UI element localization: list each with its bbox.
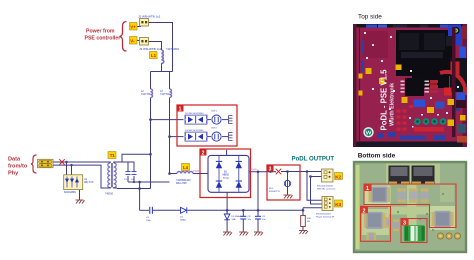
variant cross X on data line [59, 159, 64, 165]
choke component A (black) [389, 166, 410, 186]
wire cap C4 lower stub [133, 176, 135, 182]
capacitor mid 1 [398, 189, 407, 203]
wire ESD to ground [79, 190, 81, 200]
svg-text:T1: T1 [110, 153, 116, 158]
svg-text:J3 WR-WTB 1x2: J3 WR-WTB 1x2 [139, 47, 162, 51]
svg-text:K2: K2 [335, 174, 341, 179]
capacitor mid 2 [409, 189, 418, 203]
inductor L1 [162, 47, 180, 63]
wire surge row1 gdt out [222, 119, 228, 121]
series diode D4 on bottom rail [180, 207, 187, 221]
svg-text:Plugin Terminal 3P: Plugin Terminal 3P [316, 216, 335, 219]
wire ESD pin stub 2 [71, 165, 73, 175]
wire feed to surge box row2 [170, 136, 184, 138]
net label L4 tag [182, 164, 190, 171]
wire cap C3 branch [122, 162, 128, 171]
svg-text:D3 WE-VE 823540: D3 WE-VE 823540 [185, 130, 204, 132]
TVS row 1 (D2) [185, 113, 207, 124]
svg-text:3: 3 [269, 166, 272, 172]
svg-text:7447709: 7447709 [160, 93, 170, 96]
wire rail drop to bottom [139, 182, 141, 210]
wire feed to surge box row1 [151, 119, 184, 121]
bridge rectifier B1 [208, 150, 249, 192]
connector K2 [317, 169, 336, 191]
svg-text:J2 WR-WTB 1x2: J2 WR-WTB 1x2 [138, 15, 161, 19]
net label K3 tag [335, 200, 343, 207]
PCB photo bottom side (green board) [354, 162, 466, 252]
wire varistor to ground [287, 187, 289, 195]
svg-text:749910: 749910 [105, 193, 114, 196]
svg-text:D2 WE-VE 823540: D2 WE-VE 823540 [185, 113, 204, 115]
wire L4 feed line [170, 173, 178, 175]
PCB photo top side (red PSE board) [353, 24, 467, 147]
wire shunt C8 branch [242, 210, 244, 216]
wire bottom rail mid [153, 209, 181, 211]
highlight box 1 (L-shape) [364, 184, 456, 228]
wire K3 line 3 [303, 207, 322, 209]
svg-text:Power from: Power from [86, 29, 115, 35]
svg-text:PoDL - PSE V1.5: PoDL - PSE V1.5 [380, 69, 389, 131]
net label T1 tag [108, 152, 116, 159]
ground (D5) [223, 232, 232, 236]
svg-text:3: 3 [403, 221, 406, 227]
svg-text:L1: L1 [151, 53, 157, 58]
svg-text:WE-TVS: WE-TVS [84, 181, 94, 184]
svg-text:0R: 0R [307, 221, 310, 223]
wire K3 line 1 [307, 172, 322, 201]
wire L4 to bridge [193, 173, 208, 175]
capacitor box2 big [364, 212, 386, 229]
wire V- from J3 to L1 top [149, 42, 162, 51]
svg-text:L4: L4 [183, 165, 189, 170]
wire V- tag stub [137, 40, 141, 42]
svg-text:Phy: Phy [8, 171, 19, 177]
resistor R10 [301, 216, 312, 227]
svg-text:824014881: 824014881 [64, 191, 77, 194]
brace for data lines [31, 155, 37, 173]
net label V- [130, 37, 138, 45]
svg-text:GDT2: GDT2 [211, 128, 218, 130]
svg-text:Data: Data [8, 157, 21, 163]
capacitor right big [432, 211, 454, 228]
wire cap C4 branch [128, 162, 134, 171]
capacitor box2 small [367, 233, 377, 241]
ground (ESD array) [76, 200, 85, 204]
variant cross X on output line [276, 169, 282, 175]
svg-text:2: 2 [202, 150, 205, 156]
wire right rail upper [169, 72, 171, 90]
ground (C8) [239, 232, 248, 236]
wire shunt C9 branch [257, 210, 259, 216]
svg-text:from/to: from/to [8, 164, 28, 170]
wire surge row2 gdt out [222, 136, 228, 138]
svg-text:691214110002S: 691214110002S [317, 186, 333, 188]
wire R10 to ground [302, 227, 304, 231]
capacitor mid 3 [421, 189, 429, 203]
GDT row 1 [211, 111, 221, 125]
capacitor C4 [131, 172, 137, 181]
wire shunt D5 branch [226, 210, 228, 214]
highlight box 3 (pcb) [401, 219, 427, 243]
svg-text:K3: K3 [335, 202, 341, 207]
svg-text:820542711: 820542711 [269, 191, 281, 193]
red tag 3 [267, 165, 274, 172]
svg-text:100n: 100n [146, 220, 152, 222]
red tag 3 (pcb) [401, 219, 409, 227]
plated holes [437, 233, 460, 239]
svg-text:V-: V- [130, 38, 135, 43]
net label V+ [130, 23, 138, 31]
wire bridge left entry [204, 173, 208, 175]
green electrolytic capacitor (box3) [404, 225, 425, 241]
wire transformer top link [117, 154, 151, 162]
surge protection red box 1 [177, 105, 237, 146]
svg-text:V+: V+ [130, 24, 136, 29]
red tag 1 [177, 105, 184, 112]
series capacitor C5 on bottom rail [146, 207, 152, 222]
via dots [397, 193, 444, 231]
wire shunt C8 to ground [242, 220, 244, 232]
shunt TVS diode D5 [224, 214, 240, 221]
svg-text:742792662: 742792662 [166, 47, 180, 51]
wire transformer bottom link [117, 188, 151, 190]
net label K2 tag [335, 173, 343, 180]
svg-text:SMAJ: SMAJ [180, 219, 186, 222]
svg-text:1: 1 [366, 186, 369, 192]
wire bridge bottom drop [226, 192, 228, 210]
connector J2 (from PSE V+) [138, 15, 161, 27]
svg-text:1: 1 [179, 106, 182, 112]
wire varistor drop [287, 172, 289, 181]
svg-text:PWR-: PWR- [193, 169, 200, 173]
wire V+ tag stub [137, 26, 141, 28]
red tag 2 [200, 149, 207, 156]
ESD protection array U1 [64, 175, 94, 194]
wire left rail lower [150, 98, 152, 189]
wire K3 line 2 [311, 177, 323, 205]
spark gap symbol row 2 [229, 133, 233, 141]
choke component B (black) [412, 166, 435, 186]
spark gap symbol row 1 [229, 116, 233, 124]
wire bridge output to box3 [249, 171, 276, 173]
svg-text:PWR+: PWR+ [251, 168, 259, 172]
svg-text:691411510003: 691411510003 [316, 214, 331, 216]
TVS row 2 (D3) [185, 130, 207, 141]
wire split bar [151, 71, 173, 73]
ground (R10) [299, 231, 308, 235]
wire bottom rail left [140, 209, 149, 211]
highlight box 2 (pcb) [361, 206, 391, 241]
svg-text:Bridge: Bridge [223, 177, 230, 180]
red tag 2 (pcb) [361, 206, 369, 214]
wire shunt D5 to ground [226, 220, 228, 232]
svg-text:58A: 58A [232, 218, 236, 221]
svg-text:GDT1: GDT1 [211, 111, 218, 113]
wire right rail lower [169, 98, 171, 174]
wire data pair upper [53, 161, 107, 163]
capacitor C3 [124, 172, 131, 181]
shunt capacitor C9 [255, 216, 266, 221]
inductor L3 [160, 89, 172, 98]
wire bottom rail right [188, 209, 304, 211]
svg-text:WE-LHMI: WE-LHMI [176, 182, 187, 185]
wire surge row1 inner [207, 119, 211, 121]
svg-text:PSE controller: PSE controller [85, 36, 121, 42]
junction dots [65, 161, 67, 163]
ground (varistor) [284, 195, 293, 199]
svg-text:D5 SMAJ: D5 SMAJ [232, 215, 241, 218]
transformer T1 [105, 162, 117, 196]
data connector X1 [38, 159, 54, 167]
inductor L4 [176, 172, 193, 186]
svg-text:Würth Elektronik: Würth Elektronik [390, 83, 396, 126]
wire R10 vertical top [302, 208, 304, 216]
svg-text:PoDL OUTPUT: PoDL OUTPUT [292, 156, 335, 163]
wire V+ from J2 to top-right vertical [149, 23, 173, 72]
varistor RV1 [269, 180, 291, 193]
wire data pair lower [53, 165, 107, 188]
red tag 1 (pcb) [364, 184, 372, 192]
svg-text:WR-TBL connector: WR-TBL connector [317, 188, 336, 191]
wire shunt C9 to ground [257, 220, 259, 232]
wire box3 through [281, 171, 322, 173]
annotation: Power from PSE controller [85, 29, 121, 42]
connector J3 (from PSE V-) [139, 38, 162, 52]
svg-text:MB6S: MB6S [223, 174, 230, 177]
wire ESD pin stub 1 [66, 162, 68, 175]
bridge rectifier red box 2 [200, 149, 251, 198]
WE logo [363, 127, 373, 137]
capacitor small mid [386, 217, 392, 228]
shunt capacitor C8 [240, 216, 252, 221]
net label L1 tag [150, 52, 158, 59]
output red box 3 [267, 165, 300, 200]
wire surge row2 inner [207, 136, 211, 138]
wire left rail upper [150, 72, 152, 90]
connector K3 [316, 197, 335, 219]
wire output minus vertical [257, 172, 259, 211]
GDT row 2 [211, 128, 221, 142]
brace for PSE input [120, 22, 127, 52]
svg-text:7447709: 7447709 [141, 93, 151, 96]
wire caps bottom tie [128, 181, 170, 183]
wire K2 pin2 stub [311, 176, 322, 178]
inductor L2 [141, 89, 153, 98]
wire cap C3 lower stub [127, 176, 129, 182]
capacitor big (box1 area) [369, 187, 391, 203]
svg-text:Top side: Top side [358, 13, 382, 20]
capacitor small mid 2 [393, 220, 399, 232]
svg-text:Bottom side: Bottom side [358, 152, 396, 159]
wire L1 bottom to split bar [161, 63, 163, 72]
svg-text:2: 2 [363, 208, 366, 214]
ground (C9) [254, 232, 263, 236]
annotation: Data from/to Phy [8, 157, 28, 177]
